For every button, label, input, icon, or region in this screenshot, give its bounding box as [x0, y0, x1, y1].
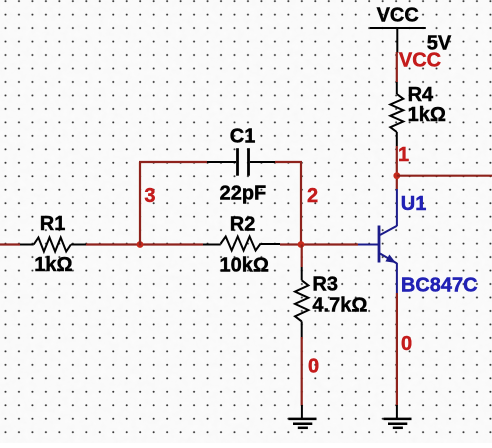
emitter arrow: [385, 255, 396, 264]
wire VCC to R4, net VCC: [396, 52, 398, 82]
power symbol VCC: [370, 28, 426, 53]
ground symbol (right): [384, 405, 412, 428]
svg-text:2: 2: [307, 185, 318, 207]
svg-text:R3: R3: [312, 274, 338, 296]
wire node 3 to R2 is part of main rail; resistor R2: [203, 237, 280, 251]
junction node 3: [137, 241, 144, 248]
resistor R1: [20, 238, 86, 252]
wire C1 to node 2 top: [275, 161, 302, 163]
junction node 2: [298, 241, 305, 248]
svg-text:BC847C: BC847C: [401, 275, 478, 297]
wire top branch to C1: [139, 161, 207, 163]
svg-text:1kΩ: 1kΩ: [408, 104, 446, 126]
junction node 1: [393, 172, 400, 179]
base lead wire: [358, 244, 378, 246]
resistor R4: [390, 82, 403, 146]
wire node 3 up left branch: [139, 162, 141, 246]
svg-text:1kΩ: 1kΩ: [34, 254, 72, 276]
wire node 2 down to R3: [301, 245, 303, 268]
svg-text:C1: C1: [230, 126, 256, 148]
svg-text:U1: U1: [401, 193, 427, 215]
svg-text:R1: R1: [40, 213, 66, 235]
svg-text:22pF: 22pF: [220, 182, 267, 204]
svg-text:0: 0: [401, 333, 412, 355]
base bar: [378, 226, 381, 263]
emitter diagonal: [380, 254, 397, 264]
emitter lead: [396, 263, 398, 293]
svg-text:VCC: VCC: [399, 49, 441, 71]
ground symbol (left): [289, 405, 317, 428]
svg-text:4.7kΩ: 4.7kΩ: [312, 295, 367, 317]
wire R1 to node 3 junction: [86, 243, 203, 245]
wire node 2 vertical: [300, 162, 302, 245]
wire R2 to node 2 junction and on to base: [280, 243, 358, 245]
transistor Q U1 BC847C: [358, 189, 397, 293]
wire net input to R1: [0, 243, 20, 245]
svg-text:10kΩ: 10kΩ: [220, 254, 269, 276]
wire node 1 to right edge: [397, 175, 492, 177]
svg-text:3: 3: [144, 185, 155, 207]
wire R3 to ground, net 0: [301, 337, 303, 406]
wire R4 to node 1 junction: [396, 146, 398, 189]
svg-text:VCC: VCC: [377, 4, 419, 26]
svg-text:0: 0: [308, 355, 319, 377]
wire emitter to ground, net 0: [396, 293, 398, 406]
svg-text:R2: R2: [230, 214, 256, 236]
svg-text:1: 1: [398, 144, 409, 166]
collector diagonal: [380, 226, 397, 235]
collector lead: [396, 189, 398, 226]
svg-text:R4: R4: [408, 84, 434, 106]
capacitor C1: [207, 148, 275, 176]
resistor R3: [295, 267, 308, 337]
